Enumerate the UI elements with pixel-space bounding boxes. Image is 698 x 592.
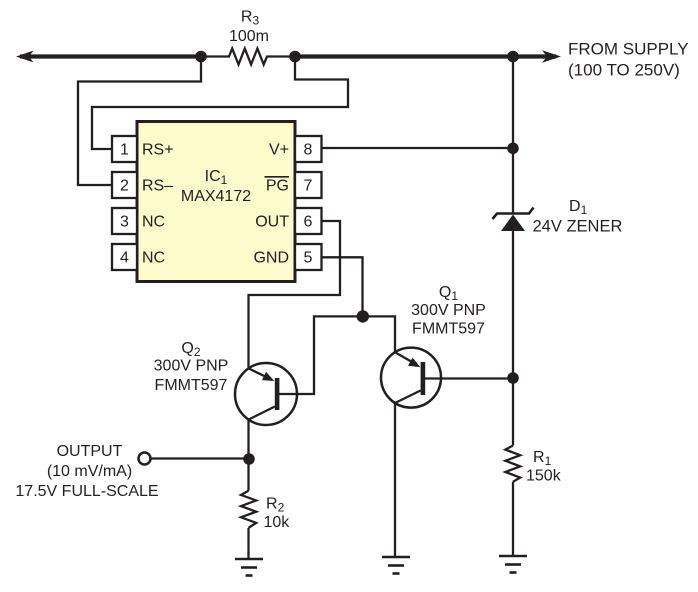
- svg-text:OUTPUT: OUTPUT: [57, 443, 123, 460]
- svg-text:PG: PG: [266, 178, 289, 195]
- overline on PG (pin 7): [265, 176, 290, 178]
- node: junction dot right of R3: [289, 51, 301, 63]
- svg-text:RS–: RS–: [142, 178, 173, 195]
- svg-text:FROM SUPPLY: FROM SUPPLY: [568, 40, 689, 59]
- IC pin names: [142, 142, 289, 267]
- arrowhead right (FROM SUPPLY bus): [542, 50, 561, 62]
- svg-text:R1: R1: [533, 449, 552, 468]
- wire: OUTPUT terminal to Q2 collector node: [151, 457, 250, 459]
- wire: pin 5 (GND) down to mid node: [322, 257, 363, 316]
- wire: Q2 collector down to output node: [247, 420, 249, 491]
- wire: R1 to ground: [512, 482, 514, 556]
- svg-text:300V PNP: 300V PNP: [154, 358, 229, 375]
- wire: pin 6 (OUT) to Q2 emitter: [249, 221, 341, 368]
- wire: supply bus right segment: [295, 54, 556, 58]
- wire: left dot to pin 2 (RS-): [78, 57, 201, 186]
- wire: supply bus left segment: [20, 54, 201, 58]
- pin 3 box: [112, 208, 137, 234]
- wire: pin 8 (V+) to supply rail: [322, 147, 514, 149]
- resistor R1 (zigzag): [505, 446, 520, 482]
- svg-text:NC: NC: [142, 214, 165, 231]
- ground (below R2): [235, 559, 263, 576]
- pin 6 box: [295, 208, 322, 234]
- wire: zener to Q1 base node: [512, 230, 514, 446]
- svg-text:GND: GND: [253, 250, 289, 267]
- node: junction dot output: [243, 453, 255, 465]
- svg-text:RS+: RS+: [142, 142, 174, 159]
- arrowhead left (FROM SUPPLY bus): [16, 51, 34, 63]
- wire: mid node left branch to Q2 base: [279, 316, 363, 394]
- transistor Q1 collector: [395, 391, 421, 404]
- label R1 150k: [526, 449, 562, 485]
- transistor Q2 emitter with arrow: [249, 368, 271, 379]
- label OUTPUT: [15, 443, 158, 500]
- ground (below R1): [499, 556, 527, 573]
- svg-text:Q1: Q1: [439, 284, 458, 303]
- svg-text:100m: 100m: [229, 28, 269, 45]
- pin 2 box: [112, 172, 137, 198]
- svg-text:8: 8: [304, 142, 313, 159]
- node: junction dot at Q1 base / R1: [507, 372, 519, 384]
- svg-text:(100 TO 250V): (100 TO 250V): [568, 61, 680, 80]
- transistor Q1 body circle: [381, 348, 441, 408]
- pin 5 box: [295, 244, 322, 270]
- node: junction dot left of R3: [195, 51, 207, 63]
- svg-text:17.5V FULL-SCALE: 17.5V FULL-SCALE: [15, 483, 158, 500]
- svg-text:5: 5: [304, 250, 313, 267]
- label R3: [229, 9, 269, 46]
- diode D1 zener symbol: [493, 208, 534, 220]
- IC U1 body (MAX4172): [137, 122, 295, 282]
- svg-text:4: 4: [120, 250, 129, 267]
- svg-text:6: 6: [304, 214, 313, 231]
- resistor R2 (zigzag): [241, 491, 256, 528]
- resistor R3 (zigzag) with thin leads: [201, 49, 295, 65]
- IC pin numbers: [120, 142, 313, 267]
- svg-text:1: 1: [120, 142, 129, 159]
- svg-text:R3: R3: [241, 9, 260, 28]
- svg-text:24V ZENER: 24V ZENER: [533, 218, 623, 236]
- wire: mid node right branch to Q1 emitter: [363, 316, 395, 352]
- wire: Q1 base to supply rail node: [425, 377, 513, 379]
- wire: R2 to ground: [247, 528, 249, 559]
- transistor Q2 base bar: [275, 378, 280, 410]
- svg-text:OUT: OUT: [255, 214, 289, 231]
- svg-text:FMMT597: FMMT597: [155, 377, 228, 394]
- label D1 24V ZENER: [533, 198, 623, 236]
- node: junction dot mid: [357, 310, 369, 322]
- transistor Q1 emitter with arrow: [395, 352, 416, 364]
- svg-text:V+: V+: [269, 142, 289, 159]
- svg-text:D1: D1: [569, 198, 588, 217]
- transistor Q1 base bar: [421, 362, 426, 395]
- node: junction dot at V+ tap: [507, 143, 519, 155]
- svg-text:2: 2: [120, 178, 129, 195]
- wire: right dot to pin 1 (RS+): [92, 57, 348, 150]
- node: junction dot at supply top: [507, 51, 519, 63]
- transistor Q2 body circle: [235, 363, 297, 425]
- svg-text:10k: 10k: [264, 514, 291, 531]
- svg-text:R2: R2: [266, 496, 285, 515]
- svg-text:Q2: Q2: [181, 340, 200, 359]
- svg-text:3: 3: [120, 214, 129, 231]
- label FROM SUPPLY: [568, 40, 689, 80]
- pin 1 box: [112, 136, 137, 162]
- label IC1 MAX4172: [181, 168, 251, 205]
- svg-text:FMMT597: FMMT597: [412, 321, 485, 338]
- pin 8 box: [295, 136, 322, 162]
- transistor Q2 collector: [249, 407, 275, 420]
- label Q1 300V PNP FMMT597: [411, 284, 486, 338]
- svg-text:150k: 150k: [526, 468, 562, 485]
- label R2 10k: [264, 496, 291, 532]
- pin 7 box: [295, 172, 322, 198]
- pin 4 box: [112, 244, 137, 270]
- svg-text:300V PNP: 300V PNP: [411, 302, 486, 319]
- svg-text:MAX4172: MAX4172: [181, 188, 251, 205]
- node: OUTPUT terminal (open circle): [139, 453, 151, 465]
- wire: Q1 collector to ground: [394, 403, 396, 557]
- svg-text:7: 7: [304, 178, 313, 195]
- svg-text:(10 mV/mA): (10 mV/mA): [47, 463, 132, 480]
- ground (below Q1): [382, 557, 410, 574]
- label Q2 300V PNP FMMT597: [154, 340, 229, 394]
- svg-text:NC: NC: [142, 250, 165, 267]
- wire: supply rail vertical (right): [512, 57, 514, 214]
